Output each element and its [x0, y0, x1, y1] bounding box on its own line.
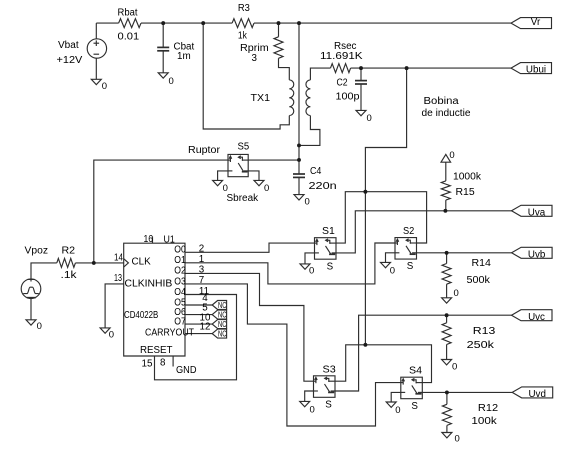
- svg-text:0: 0: [169, 76, 174, 87]
- svg-text:R12: R12: [478, 403, 498, 414]
- svg-text:0: 0: [309, 266, 314, 277]
- svg-text:S5: S5: [238, 141, 250, 152]
- svg-text:CLK: CLK: [132, 257, 152, 268]
- svg-text:GND: GND: [176, 365, 197, 376]
- svg-text:1k: 1k: [238, 31, 247, 42]
- svg-text:0.01: 0.01: [118, 31, 140, 42]
- svg-text:CD4022B: CD4022B: [124, 310, 159, 321]
- svg-text:C2: C2: [337, 77, 348, 88]
- svg-text:NC: NC: [218, 311, 227, 320]
- svg-text:0: 0: [455, 434, 460, 445]
- svg-text:Ubui: Ubui: [526, 65, 546, 76]
- svg-text:0: 0: [310, 405, 315, 416]
- svg-text:7: 7: [199, 275, 204, 286]
- svg-text:Uvc: Uvc: [528, 312, 545, 323]
- svg-text:0: 0: [395, 405, 400, 416]
- svg-text:S2: S2: [403, 226, 414, 237]
- svg-text:0: 0: [102, 81, 107, 92]
- svg-text:CARRYOUT: CARRYOUT: [145, 327, 194, 338]
- svg-text:de inductie: de inductie: [422, 108, 472, 119]
- svg-text:16: 16: [144, 234, 154, 245]
- svg-text:Vr: Vr: [531, 17, 541, 28]
- svg-text:Uvd: Uvd: [528, 389, 545, 400]
- svg-text:Ruptor: Ruptor: [188, 145, 221, 156]
- svg-text:C4: C4: [310, 166, 322, 177]
- svg-text:TX1: TX1: [251, 93, 271, 104]
- svg-text:1: 1: [199, 254, 204, 265]
- svg-text:S: S: [327, 261, 334, 272]
- svg-text:O1: O1: [174, 255, 186, 266]
- svg-text:12: 12: [200, 322, 211, 333]
- svg-text:250k: 250k: [467, 340, 494, 351]
- svg-text:0: 0: [223, 183, 228, 194]
- svg-text:0: 0: [449, 150, 454, 161]
- svg-text:3: 3: [199, 265, 205, 276]
- svg-text:13: 13: [114, 273, 122, 284]
- svg-text:Rbat: Rbat: [118, 7, 138, 18]
- svg-text:O4: O4: [174, 287, 186, 298]
- svg-text:RESET: RESET: [140, 345, 173, 356]
- svg-text:R2: R2: [62, 245, 76, 256]
- svg-text:3: 3: [252, 53, 258, 64]
- svg-text:2: 2: [199, 244, 204, 255]
- svg-text:0: 0: [452, 362, 457, 373]
- svg-text:0: 0: [367, 113, 372, 124]
- svg-text:14: 14: [114, 252, 123, 263]
- svg-text:NC: NC: [218, 320, 227, 329]
- svg-text:S: S: [407, 261, 414, 272]
- svg-text:+12V: +12V: [57, 55, 83, 66]
- svg-text:8: 8: [160, 357, 166, 368]
- svg-text:O2: O2: [174, 266, 186, 277]
- svg-text:1m: 1m: [177, 51, 191, 62]
- svg-text:100p: 100p: [336, 91, 361, 102]
- svg-text:0: 0: [305, 197, 310, 208]
- svg-text:500k: 500k: [467, 275, 491, 286]
- svg-text:100k: 100k: [471, 416, 496, 427]
- svg-text:R3: R3: [238, 3, 251, 14]
- svg-text:NC: NC: [218, 301, 227, 310]
- svg-text:Vbat: Vbat: [58, 40, 79, 51]
- svg-text:S3: S3: [323, 364, 337, 375]
- svg-text:S: S: [325, 400, 332, 411]
- svg-text:0: 0: [390, 266, 395, 277]
- svg-text:0: 0: [109, 330, 114, 341]
- svg-text:15: 15: [142, 358, 154, 369]
- svg-text:1000k: 1000k: [453, 172, 481, 183]
- svg-text:Uva: Uva: [528, 207, 546, 218]
- svg-text:CLKINHIB: CLKINHIB: [125, 278, 173, 289]
- svg-text:O7: O7: [174, 316, 186, 327]
- svg-text:Uvb: Uvb: [528, 249, 546, 260]
- svg-text:.1k: .1k: [61, 270, 77, 281]
- svg-text:220n: 220n: [309, 181, 337, 192]
- svg-text:R15: R15: [456, 187, 476, 198]
- svg-text:O3: O3: [174, 276, 186, 287]
- svg-text:11.691K: 11.691K: [320, 51, 363, 62]
- svg-text:Bobina: Bobina: [424, 96, 460, 107]
- svg-text:NC: NC: [218, 330, 227, 339]
- svg-text:S1: S1: [322, 226, 335, 237]
- svg-text:Vpoz: Vpoz: [25, 245, 49, 256]
- svg-text:U1: U1: [164, 234, 175, 245]
- svg-text:R13: R13: [473, 326, 496, 337]
- svg-text:Sbreak: Sbreak: [227, 193, 259, 204]
- svg-text:R14: R14: [472, 258, 492, 269]
- svg-text:O0: O0: [174, 245, 186, 256]
- svg-text:S4: S4: [409, 366, 423, 377]
- svg-text:0: 0: [454, 288, 459, 299]
- svg-text:0: 0: [264, 183, 269, 194]
- svg-text:0: 0: [37, 321, 42, 332]
- svg-text:S: S: [411, 401, 418, 412]
